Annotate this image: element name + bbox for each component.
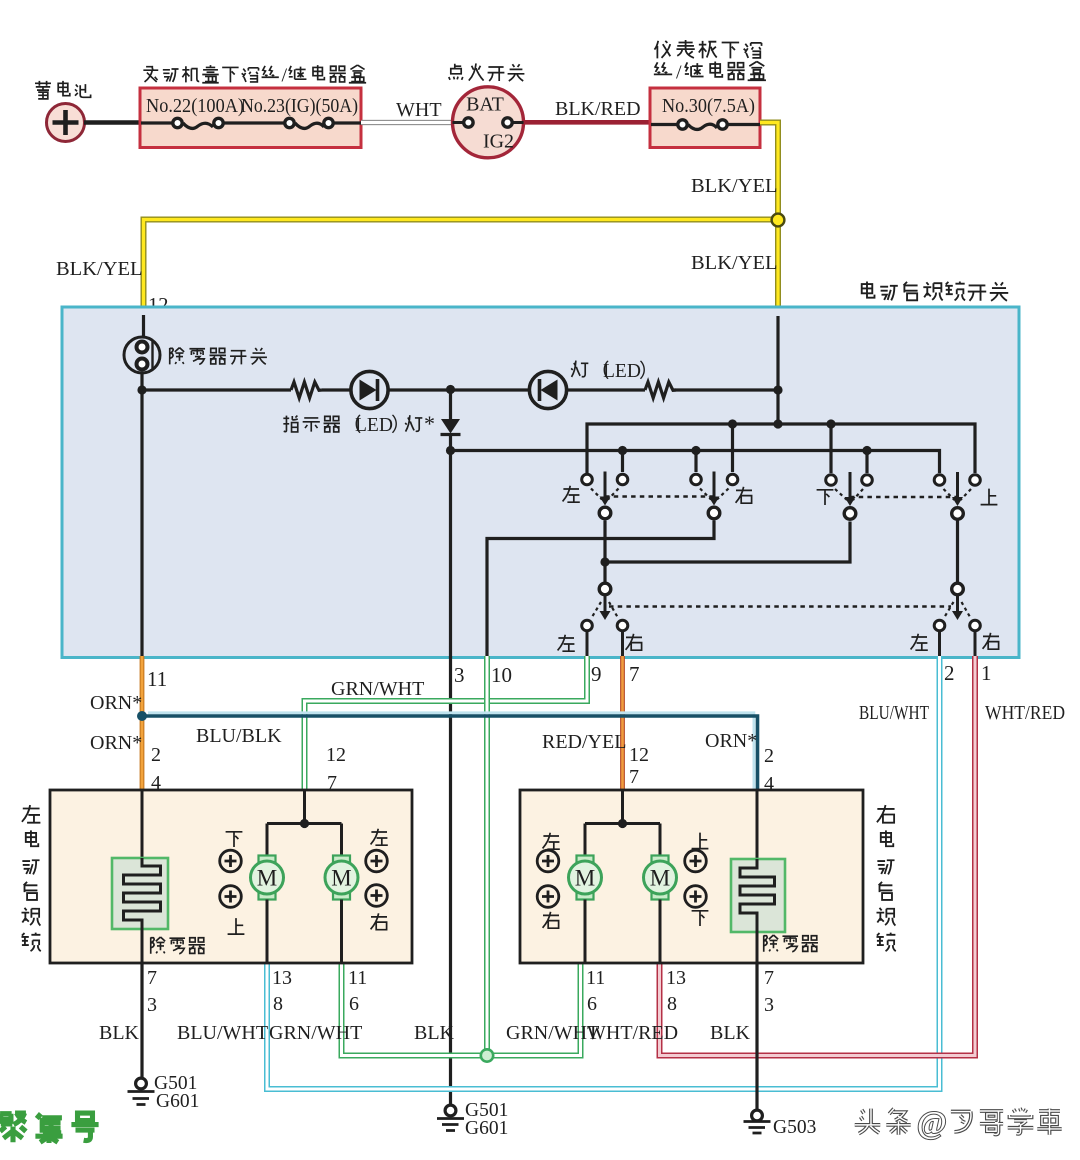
selector sel-right lever xyxy=(956,596,959,614)
node B dot (x=450,y=390) xyxy=(446,385,455,394)
linkage dashed selectors xyxy=(609,605,951,608)
switch sw3-down lever xyxy=(849,472,852,499)
svg-text:BLU/WHT: BLU/WHT xyxy=(177,1022,268,1044)
wire BLK pin3 to ground xyxy=(449,656,452,1105)
node dots on row A xyxy=(773,419,782,428)
switch sw2-right lower contact xyxy=(708,507,720,519)
svg-text:13: 13 xyxy=(666,967,686,989)
selector sel-right common contact xyxy=(952,583,964,595)
svg-text:LED: LED xyxy=(355,415,393,436)
watermark 聚集号 green xyxy=(0,1113,26,1142)
svg-text:2: 2 xyxy=(151,744,161,766)
wire inside fuse box 2 xyxy=(651,123,760,126)
indicator 下 label xyxy=(226,832,243,847)
label 右 (sw2) xyxy=(736,487,752,503)
svg-text:No.22(100A): No.22(100A) xyxy=(146,95,244,117)
wire main row y=390 xyxy=(142,388,778,391)
label 下 (sw3) xyxy=(817,490,834,505)
wire BLK/YEL branch to pin 12 (left) xyxy=(144,220,779,319)
ground G501/G601 left xyxy=(136,1078,147,1089)
svg-text:7: 7 xyxy=(629,766,639,788)
selector sel-left lever xyxy=(604,596,607,614)
wire drops from row A xyxy=(731,424,734,472)
svg-text:*: * xyxy=(424,411,435,436)
selector sel-left contacts xyxy=(582,620,593,631)
svg-text:7: 7 xyxy=(764,967,774,989)
svg-text:G503: G503 xyxy=(773,1117,816,1138)
indicator 下 label (right box) xyxy=(692,911,709,926)
svg-text:/: / xyxy=(676,62,682,84)
wire feed down x=778 from box top to row A xyxy=(776,316,779,424)
svg-text:8: 8 xyxy=(273,993,283,1015)
svg-text:ORN*: ORN* xyxy=(705,730,757,752)
wire motor outputs left box xyxy=(267,900,342,964)
svg-text:13: 13 xyxy=(272,967,292,989)
node dot motor feed left xyxy=(300,819,309,828)
wire WHT/RED pin1 down-left to right mirror 13/8 xyxy=(660,656,976,1056)
battery B1 (+) xyxy=(47,104,85,142)
svg-text:M: M xyxy=(575,866,595,891)
svg-text:M: M xyxy=(331,866,351,891)
switch sw1-left lower contact xyxy=(599,507,611,519)
indicator circles right box mid xyxy=(685,850,707,872)
wire ORN* pin11 to left mirror xyxy=(140,656,145,790)
underhood fuse box title 发动机盖下熔丝/继电器盒 xyxy=(143,66,158,82)
switch sw1-left lever xyxy=(604,472,607,499)
left mirror vertical title 左电动后视镜 xyxy=(22,805,40,823)
node D dot (x=778,y=390) xyxy=(773,385,782,394)
node dot motor feed right xyxy=(618,819,627,828)
indicator 右 label (right box) xyxy=(543,912,559,928)
svg-text:BLK: BLK xyxy=(710,1022,751,1044)
indicator circles left box right side xyxy=(366,850,388,872)
svg-text:12: 12 xyxy=(629,744,649,766)
indicator 左 label (left box) xyxy=(371,829,388,845)
power mirror switch box xyxy=(62,307,1019,658)
LED D2 lamp (points left) xyxy=(529,371,566,408)
svg-text:@: @ xyxy=(917,1104,947,1140)
label 除雾器 left xyxy=(151,937,165,954)
svg-text:11: 11 xyxy=(147,667,167,691)
label 上 (sw4) xyxy=(981,489,998,505)
switch sw3-down upper contacts xyxy=(826,475,837,486)
svg-text:G601: G601 xyxy=(156,1091,199,1112)
wire sw4 lower down xyxy=(956,521,959,583)
node dots on row B xyxy=(618,446,627,455)
wire WHT fusebox to ignition switch xyxy=(361,120,455,125)
wire ORN inside left box to defogger xyxy=(141,790,144,858)
svg-text:M: M xyxy=(650,866,670,891)
label 左 (sel-right) xyxy=(911,634,928,650)
svg-text:6: 6 xyxy=(349,993,359,1015)
junction dot BLU/BLK on ORN wire xyxy=(137,711,147,721)
wire drops from row B xyxy=(621,451,624,473)
label 除雾器 right xyxy=(764,935,778,952)
svg-text:3: 3 xyxy=(454,663,465,687)
svg-text:M: M xyxy=(257,866,277,891)
motor M4 right box (up/down) xyxy=(652,856,669,866)
wire GRN/WHT mirror-to-mirror 11/6 xyxy=(342,963,581,1056)
wire BLU/WHT pin2 down-left to left mirror 13/8 xyxy=(267,656,940,1089)
svg-text:BLK/RED: BLK/RED xyxy=(555,98,641,120)
label 右 (sel-right) xyxy=(983,633,999,649)
node E dot (605,562) xyxy=(600,557,609,566)
ground G503 xyxy=(752,1110,763,1121)
LED D1 indicator (points right) xyxy=(351,371,388,408)
svg-text:GRN/WHT: GRN/WHT xyxy=(269,1022,362,1044)
svg-text:BAT: BAT xyxy=(466,94,504,116)
selector sel-right contact stubs xyxy=(940,632,976,658)
right mirror vertical title 右电动后视镜 xyxy=(877,805,895,823)
svg-text:8: 8 xyxy=(667,993,677,1015)
svg-text:RED/YEL: RED/YEL xyxy=(542,731,626,753)
fuse F23 symbol xyxy=(295,123,324,128)
indicator circles right box left side xyxy=(537,850,559,872)
switch sw2-right upper contacts xyxy=(691,474,702,485)
svg-text:BLK/YEL: BLK/YEL xyxy=(691,175,778,197)
wire sw2 lower to pin 10 xyxy=(487,521,714,659)
junction dot BLK/YEL xyxy=(772,214,785,227)
junction circle GRN/WHT xyxy=(481,1049,493,1061)
svg-text:No.23(IG)(50A): No.23(IG)(50A) xyxy=(241,95,358,117)
resistor R2 xyxy=(645,382,676,398)
motor M1 left box (up/down) xyxy=(259,856,276,866)
wire row A y=424 xyxy=(587,424,975,480)
svg-text:9: 9 xyxy=(591,662,602,686)
svg-text:BLU/BLK: BLU/BLK xyxy=(196,725,282,747)
underhood fuse/relay box xyxy=(140,88,361,148)
indicator 左 label (right box) xyxy=(543,833,560,849)
under-dash fuse/relay box xyxy=(650,88,760,148)
svg-text:BLK: BLK xyxy=(414,1022,455,1044)
fuse F22 symbol xyxy=(183,123,213,128)
wire GRN/WHT pin9 to left mirror 12/7 xyxy=(305,656,588,790)
selector sel-left contact stubs xyxy=(587,632,623,658)
wire defogger left down xyxy=(141,929,144,963)
mirror switch box title 电动后视镜开关 xyxy=(862,281,875,297)
indicator circle up xyxy=(220,886,242,908)
label 除雾器开关 xyxy=(170,348,184,365)
svg-text:ORN*: ORN* xyxy=(90,732,142,754)
selector sel-left common contact xyxy=(599,583,611,595)
svg-text:）: ） xyxy=(639,360,659,382)
svg-text:2: 2 xyxy=(764,745,774,767)
wire BLK/RED ignition to dash fuse box xyxy=(524,120,652,125)
switch sw1-left upper contacts xyxy=(582,474,593,485)
wire defogger right down xyxy=(756,932,759,963)
svg-text:2: 2 xyxy=(944,661,955,685)
svg-text:LED: LED xyxy=(603,361,641,382)
svg-text:7: 7 xyxy=(147,967,157,989)
ignition switch title 点火开关 xyxy=(449,64,463,80)
wire pin3 vertical inside box xyxy=(449,451,452,659)
switch sw4-up upper contacts xyxy=(934,475,945,486)
svg-text:BLK/YEL: BLK/YEL xyxy=(56,258,143,280)
svg-text:IG2: IG2 xyxy=(483,131,514,153)
fuse F30 symbol xyxy=(688,124,717,129)
wire motor feed right box xyxy=(585,790,660,855)
indicator 右 label (left box) xyxy=(371,913,387,929)
ignition terminal IG2 xyxy=(513,121,524,124)
svg-text:No.30(7.5A): No.30(7.5A) xyxy=(662,95,755,117)
svg-text:BLK: BLK xyxy=(99,1022,140,1044)
wire branch to sw3 lower xyxy=(605,522,850,563)
wire row B y=450.5 xyxy=(451,451,940,474)
indicator 上 label (right box) xyxy=(692,833,709,849)
label 指示器（LED）灯* xyxy=(283,416,297,432)
wire motor feed left box xyxy=(267,790,342,855)
wire GRN/WHT pin10 down to junction xyxy=(484,656,490,1053)
switch sw2-right lever xyxy=(713,472,716,499)
svg-text:BLU/WHT: BLU/WHT xyxy=(859,702,929,724)
wire BLU/BLK defogger feed (pale stroke) xyxy=(148,713,754,790)
svg-text:GRN/WHT: GRN/WHT xyxy=(331,678,424,700)
svg-text:WHT: WHT xyxy=(396,99,442,121)
linkage dashed sw3-sw4 xyxy=(850,496,958,499)
dash fuse box title 仪表板下熔丝/继电器盒 xyxy=(654,41,670,58)
wire BLK right mirror defogger to ground G503 xyxy=(755,963,758,1110)
ground G501/G601 centre (switch pin3) xyxy=(445,1105,456,1116)
motor M3 right box (left/right) xyxy=(577,856,594,866)
wire BLK/YEL from fuse box down to switch (vertical at x=778) xyxy=(760,123,778,319)
right mirror box xyxy=(520,790,863,963)
svg-text:7: 7 xyxy=(629,662,640,686)
selector sel-right contacts xyxy=(934,620,945,631)
wire inside fuse box 1 xyxy=(141,121,361,124)
left mirror box xyxy=(50,790,412,963)
node C dot (x=450,y=450) xyxy=(446,446,455,455)
svg-text:G601: G601 xyxy=(465,1118,508,1139)
svg-text:11: 11 xyxy=(348,967,367,989)
ignition switch SW1 xyxy=(453,87,524,158)
wire battery to underhood fuse box (thick BLK) xyxy=(84,120,141,125)
battery label 蓄电池 xyxy=(35,81,51,99)
svg-text:11: 11 xyxy=(586,967,605,989)
svg-text:12: 12 xyxy=(326,744,346,766)
label 右 (sel-left) xyxy=(626,634,642,650)
defogger switch SW2 除雾器开关 symbol xyxy=(124,337,160,373)
wire BLK left mirror defogger to ground xyxy=(140,963,143,1078)
defogger element left 除雾器 xyxy=(112,858,168,929)
svg-text:1: 1 xyxy=(981,661,992,685)
indicator circle down xyxy=(220,850,242,872)
defogger element right 除雾器 xyxy=(731,859,785,932)
wire defogger feed inside right box xyxy=(756,790,759,859)
switch sw4-up lower contact xyxy=(952,508,964,520)
motor M2 left box (left/right) xyxy=(333,856,350,866)
wire RED/YEL pin7 to right mirror 12/7 xyxy=(620,656,625,790)
label 左 (sel-left) xyxy=(558,635,575,651)
diode D3 (points down) xyxy=(449,390,452,419)
switch sw4-up lever xyxy=(956,472,959,499)
wire defogger switch to node xyxy=(140,373,143,390)
linkage dashed sw1-sw2 xyxy=(605,495,714,498)
wire BLU/BLK defogger feed (navy stroke) xyxy=(142,716,758,790)
svg-text:3: 3 xyxy=(147,994,157,1016)
switch sw3-down lower contact xyxy=(844,508,856,520)
svg-text:BLK/YEL: BLK/YEL xyxy=(691,252,778,274)
wire pin12 into defogger switch xyxy=(142,315,145,338)
wire sw1 lower down xyxy=(603,521,606,583)
svg-text:GRN/WHT: GRN/WHT xyxy=(506,1022,599,1044)
svg-text:3: 3 xyxy=(764,994,774,1016)
resistor R1 xyxy=(291,382,322,398)
wire pin11 inside box xyxy=(140,390,143,658)
label 左 (sw1) xyxy=(563,486,580,502)
svg-text:WHT/RED: WHT/RED xyxy=(587,1022,678,1044)
svg-text:6: 6 xyxy=(587,993,597,1015)
label 灯（LED） xyxy=(571,361,588,377)
wire motor outputs right box xyxy=(585,900,660,964)
svg-text:/: / xyxy=(282,65,288,87)
svg-text:WHT/RED: WHT/RED xyxy=(985,702,1065,724)
svg-text:ORN*: ORN* xyxy=(90,692,142,714)
watermark 头条 @飞哥学车 outlined xyxy=(855,1109,881,1134)
svg-text:10: 10 xyxy=(491,663,512,687)
ignition terminal BAT xyxy=(453,121,464,124)
indicator 上 label xyxy=(228,918,245,934)
node A dot xyxy=(137,385,146,394)
